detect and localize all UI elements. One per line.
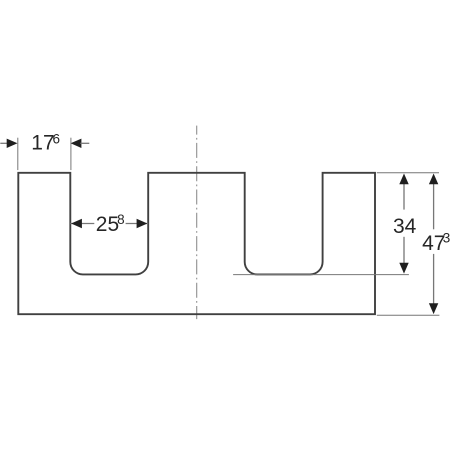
svg-text:6: 6 <box>53 131 61 146</box>
dimension 17.6 right arrow <box>71 139 82 148</box>
dimension 47.3 line lower segment <box>433 254 435 304</box>
svg-text:8: 8 <box>117 212 125 227</box>
centerline <box>196 126 198 319</box>
dimension 25.8 right arrow <box>137 219 148 228</box>
dimension 47.3 bottom arrow <box>429 303 438 314</box>
dimension label 47 superscript 3 <box>443 231 450 246</box>
dimension label 47 <box>422 232 445 255</box>
extension line top right (from worktop top edge) <box>377 172 439 174</box>
dimension label 17 <box>31 132 54 155</box>
dimension label 17 superscript 6 <box>53 131 61 146</box>
svg-text:34: 34 <box>393 215 417 238</box>
svg-text:3: 3 <box>443 231 450 246</box>
svg-text:17: 17 <box>31 132 54 155</box>
dimension 34 line lower segment <box>403 237 405 263</box>
dimension 34 line upper segment <box>403 184 405 210</box>
dimension 25.8 left arrow <box>71 219 82 228</box>
dimension 25.8 line right segment <box>126 223 149 225</box>
worktop outline with two U-cutouts <box>18 173 375 314</box>
dimension 34 top arrow <box>399 174 408 185</box>
dimension 47.3 line upper segment <box>433 184 435 230</box>
svg-text:25: 25 <box>96 213 119 236</box>
dimension label 34 <box>393 215 417 238</box>
extension line left cutout wall (dim 17.6) <box>70 138 72 170</box>
dimension label 25 <box>96 213 119 236</box>
dimension 34 bottom arrow <box>399 263 408 274</box>
dimension 17.6 left tail wire <box>0 142 8 144</box>
extension line left edge (dim 17.6) <box>17 138 19 170</box>
dimension 17.6 right tail wire <box>80 142 89 144</box>
dimension label 25 superscript 8 <box>117 212 125 227</box>
dimension 17.6 left arrow <box>7 139 18 148</box>
dimension 25.8 line left segment <box>70 223 94 225</box>
extension line cutout bottom (for dim 34) <box>233 274 409 276</box>
dimension 47.3 top arrow <box>429 174 438 185</box>
extension line bottom right (from worktop bottom edge) <box>377 314 440 316</box>
